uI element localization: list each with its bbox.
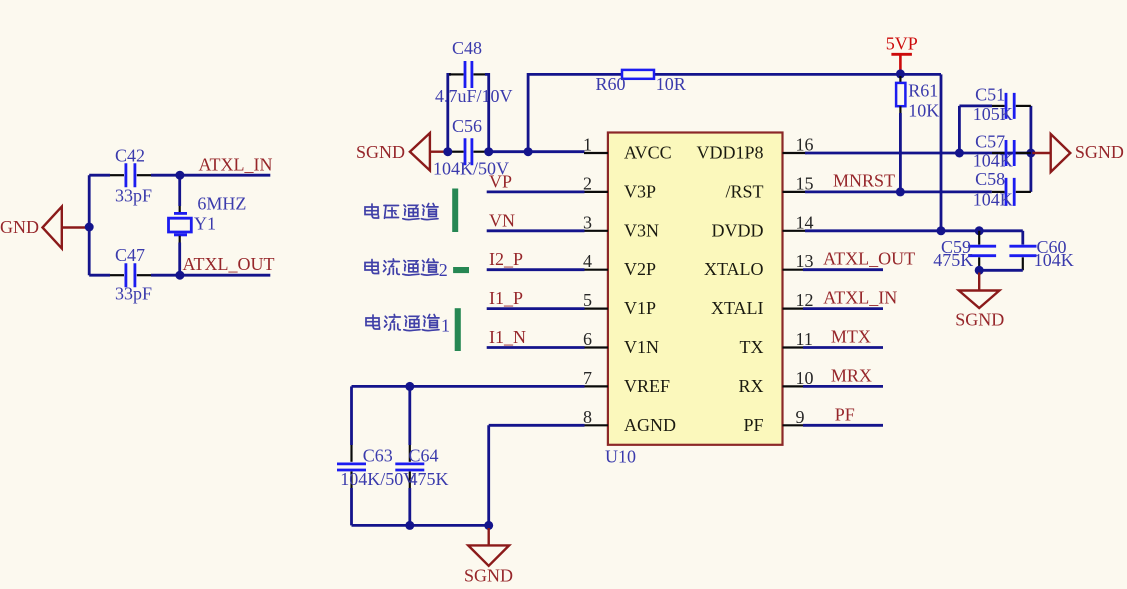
- svg-text:1: 1: [441, 316, 450, 336]
- capacitor C64: [395, 386, 448, 525]
- svg-text:SGND: SGND: [464, 566, 513, 586]
- svg-text:33pF: 33pF: [115, 284, 152, 304]
- svg-text:C47: C47: [115, 245, 145, 265]
- svg-text:15: 15: [796, 173, 814, 193]
- wire MNRST row pin 15: [805, 190, 992, 193]
- power symbol SGND bottom left: [464, 528, 513, 586]
- capacitor C51: [959, 85, 1031, 124]
- svg-text:PF: PF: [743, 415, 763, 435]
- wire left bracket C51/C57: [958, 106, 961, 153]
- svg-text:4: 4: [583, 251, 592, 271]
- node junction riser on AVCC row: [524, 147, 533, 156]
- node junction AGND SGND: [484, 521, 493, 530]
- capacitor C56: [433, 116, 509, 179]
- svg-text:RX: RX: [738, 376, 763, 396]
- svg-text:U10: U10: [605, 447, 636, 467]
- svg-text:SGND: SGND: [955, 310, 1004, 330]
- svg-text:C64: C64: [409, 445, 439, 465]
- pin 4 V2P: [583, 251, 656, 279]
- power symbol SGND left: [356, 133, 445, 171]
- pin 13 XTALO: [704, 251, 814, 279]
- svg-text:5: 5: [583, 290, 592, 310]
- node junction C64 top: [405, 382, 414, 391]
- pin 9 PF: [743, 407, 804, 435]
- svg-text:/RST: /RST: [725, 181, 763, 201]
- svg-text:9: 9: [796, 407, 805, 427]
- wire pin 12 stub: [803, 307, 883, 310]
- capacitor C57: [973, 132, 1031, 171]
- capacitor C48: [435, 38, 513, 106]
- node ATXL_IN junction: [175, 171, 184, 180]
- svg-text:104K: 104K: [973, 189, 1013, 209]
- svg-text:1: 1: [583, 135, 592, 155]
- svg-text:104K/50V: 104K/50V: [340, 469, 416, 489]
- svg-text:VREF: VREF: [624, 376, 670, 396]
- wire pin 5: [487, 307, 585, 310]
- wire bottom row to ATXL_OUT: [89, 274, 110, 277]
- wire pin 2: [487, 190, 585, 193]
- svg-text:4.7uF/10V: 4.7uF/10V: [435, 86, 513, 106]
- node junction rail on DVDD row: [937, 226, 946, 235]
- wire pin 7 VREF row: [352, 385, 585, 388]
- node junction C48 left on AVCC row: [443, 147, 452, 156]
- wire left vertical: [88, 175, 91, 275]
- svg-text:C51: C51: [975, 85, 1005, 105]
- wire pin 6: [487, 346, 585, 349]
- svg-text:I1_P: I1_P: [489, 288, 523, 308]
- wire pin 9 stub: [803, 424, 883, 427]
- svg-text:VN: VN: [489, 210, 515, 230]
- pin 11 TX: [740, 329, 813, 357]
- svg-text:2: 2: [439, 260, 448, 280]
- svg-text:AVCC: AVCC: [624, 143, 672, 163]
- annotation 电流通道2: [365, 259, 448, 280]
- wire DVDD row pin 14: [805, 229, 1023, 232]
- svg-text:VDD1P8: VDD1P8: [696, 143, 763, 163]
- svg-text:12: 12: [796, 290, 814, 310]
- svg-text:104K: 104K: [1034, 250, 1074, 270]
- svg-text:SGND: SGND: [1075, 142, 1124, 162]
- power symbol SGND right: [1031, 134, 1124, 172]
- wire pin 4: [487, 268, 585, 271]
- node junction cap bank left: [955, 149, 964, 158]
- capacitor C59: [933, 231, 996, 270]
- svg-text:10: 10: [796, 368, 814, 388]
- svg-text:SGND: SGND: [356, 142, 405, 162]
- pin 8 AGND: [583, 407, 676, 435]
- svg-text:10K: 10K: [908, 101, 939, 121]
- svg-text:TX: TX: [740, 337, 764, 357]
- power symbol GND: [0, 207, 87, 249]
- pin 6 V1N: [583, 329, 659, 357]
- svg-text:XTALO: XTALO: [704, 259, 764, 279]
- capacitor C58: [973, 169, 1031, 209]
- svg-text:ATXL_IN: ATXL_IN: [823, 288, 897, 308]
- svg-text:V1P: V1P: [624, 298, 656, 318]
- wire AVCC row to IC pin 1: [489, 150, 585, 153]
- svg-text:PF: PF: [835, 404, 855, 424]
- pin 1 AVCC: [583, 135, 672, 163]
- wire pin 13 stub: [803, 268, 883, 271]
- marker green dash current channel 2: [453, 267, 469, 273]
- svg-text:V2P: V2P: [624, 259, 656, 279]
- svg-text:MNRST: MNRST: [833, 171, 895, 191]
- svg-text:104K: 104K: [973, 150, 1013, 170]
- power symbol 5VP: [886, 34, 918, 73]
- wire pin 3: [487, 229, 585, 232]
- svg-text:MRX: MRX: [831, 365, 872, 385]
- svg-text:Y1: Y1: [194, 214, 216, 234]
- svg-text:MTX: MTX: [831, 327, 871, 347]
- capacitor C63: [337, 386, 416, 525]
- pin 12 XTALI: [711, 290, 814, 318]
- svg-text:5VP: 5VP: [886, 34, 918, 54]
- resistor R61: [896, 76, 939, 192]
- svg-text:C57: C57: [975, 132, 1005, 152]
- svg-text:7: 7: [583, 368, 592, 388]
- node GND junction: [85, 223, 94, 232]
- crystal Y1: [169, 175, 247, 275]
- pin 16 VDD1P8: [696, 135, 813, 163]
- capacitor C42: [110, 146, 152, 206]
- marker green bar current channel 1: [455, 308, 461, 351]
- svg-text:AGND: AGND: [624, 415, 676, 435]
- pin 3 V3N: [583, 212, 659, 240]
- svg-text:V3P: V3P: [624, 181, 656, 201]
- svg-text:14: 14: [796, 212, 814, 232]
- wire AGND bottom row: [352, 524, 489, 527]
- wire left bracket C48/C56: [448, 74, 451, 151]
- svg-text:I2_P: I2_P: [489, 249, 523, 269]
- annotation 电压通道: [365, 204, 438, 220]
- svg-text:DVDD: DVDD: [712, 220, 764, 240]
- svg-text:ATXL_IN: ATXL_IN: [199, 155, 273, 175]
- svg-text:2: 2: [583, 173, 592, 193]
- wire top row to ATXL_IN: [89, 174, 110, 177]
- svg-text:33pF: 33pF: [115, 186, 152, 206]
- svg-text:R60: R60: [596, 74, 626, 94]
- svg-text:6: 6: [583, 329, 592, 349]
- annotation 电流通道1: [366, 315, 450, 336]
- svg-text:10R: 10R: [656, 74, 686, 94]
- svg-text:C58: C58: [975, 169, 1005, 189]
- pin 7 VREF: [583, 368, 670, 396]
- capacitor C47: [110, 245, 152, 304]
- power symbol SGND under C59: [955, 273, 1004, 330]
- svg-text:105K: 105K: [973, 104, 1013, 124]
- svg-text:13: 13: [796, 251, 814, 271]
- svg-text:C42: C42: [115, 146, 145, 166]
- node junction C59 top: [975, 226, 984, 235]
- wire pin 8 AGND: [489, 425, 585, 525]
- pin 5 V1P: [583, 290, 656, 318]
- node junction cap bank right: [1026, 149, 1035, 158]
- wire pin 11 stub: [803, 346, 883, 349]
- pin 15 /RST: [725, 173, 813, 201]
- svg-text:R61: R61: [908, 81, 938, 101]
- wire riser and top rail through R60: [528, 74, 941, 151]
- svg-text:ATXL_OUT: ATXL_OUT: [823, 249, 915, 269]
- svg-text:GND: GND: [0, 217, 39, 237]
- svg-text:475K: 475K: [409, 469, 449, 489]
- wire C59/C60 bottom row: [979, 269, 1023, 272]
- svg-text:V1N: V1N: [624, 337, 659, 357]
- svg-text:6MHZ: 6MHZ: [197, 194, 246, 214]
- capacitor C60: [1009, 231, 1073, 270]
- node junction C56 right on AVCC row: [484, 147, 493, 156]
- node junction 5VP on top rail: [896, 69, 905, 78]
- wire VDD1P8 row pin 16: [805, 152, 1031, 155]
- node junction R61 on MNRST row: [896, 187, 905, 196]
- resistor R60: [596, 70, 686, 94]
- svg-text:V3N: V3N: [624, 220, 659, 240]
- svg-text:ATXL_OUT: ATXL_OUT: [183, 254, 275, 274]
- node junction C59 bottom: [975, 266, 984, 275]
- node ATXL_OUT junction: [175, 271, 184, 280]
- svg-text:11: 11: [796, 329, 813, 349]
- pin 14 DVDD: [712, 212, 814, 240]
- marker green bar voltage channel: [452, 189, 458, 233]
- wire rail down to DVDD row: [940, 74, 943, 230]
- wire right bracket C51/C58: [1030, 106, 1033, 192]
- svg-text:8: 8: [583, 407, 592, 427]
- pin 2 V3P: [583, 173, 656, 201]
- svg-text:C56: C56: [452, 116, 482, 136]
- svg-text:16: 16: [796, 135, 814, 155]
- svg-text:VP: VP: [489, 171, 512, 191]
- svg-text:475K: 475K: [933, 250, 973, 270]
- wire pin 10 stub: [803, 385, 883, 388]
- wire right bracket C48/C56: [485, 74, 489, 151]
- svg-text:C63: C63: [363, 445, 393, 465]
- node junction C64 bottom: [405, 521, 414, 530]
- svg-text:I1_N: I1_N: [489, 327, 526, 347]
- svg-text:XTALI: XTALI: [711, 298, 764, 318]
- svg-text:3: 3: [583, 212, 592, 232]
- op-amp U10 body: [605, 133, 783, 467]
- pin 10 RX: [738, 368, 813, 396]
- svg-text:C48: C48: [452, 38, 482, 58]
